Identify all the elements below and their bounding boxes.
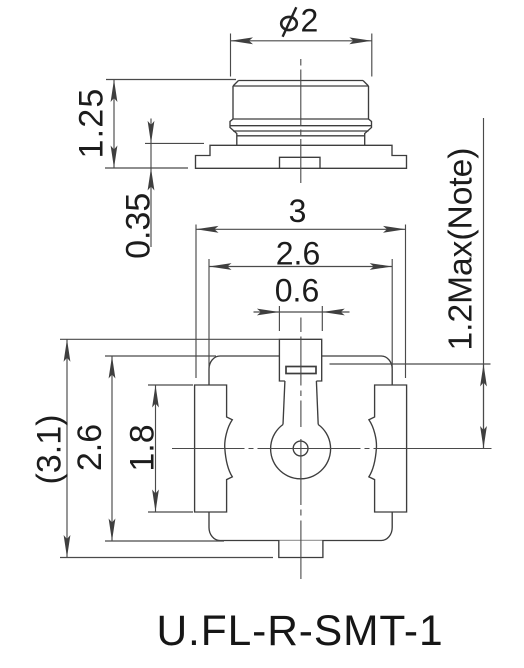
svg-text:(3.1): (3.1) [31, 415, 69, 485]
svg-text:3: 3 [289, 193, 307, 229]
svg-text:1.2Max(Note): 1.2Max(Note) [443, 148, 480, 351]
svg-text:2.6: 2.6 [71, 424, 109, 471]
svg-text:0.6: 0.6 [275, 273, 319, 309]
svg-text:0.35: 0.35 [120, 193, 158, 259]
svg-text:1.25: 1.25 [73, 88, 111, 159]
svg-text:1.8: 1.8 [124, 424, 162, 471]
svg-text:2: 2 [301, 3, 319, 39]
svg-text:U.FL-R-SMT-1: U.FL-R-SMT-1 [156, 608, 443, 655]
